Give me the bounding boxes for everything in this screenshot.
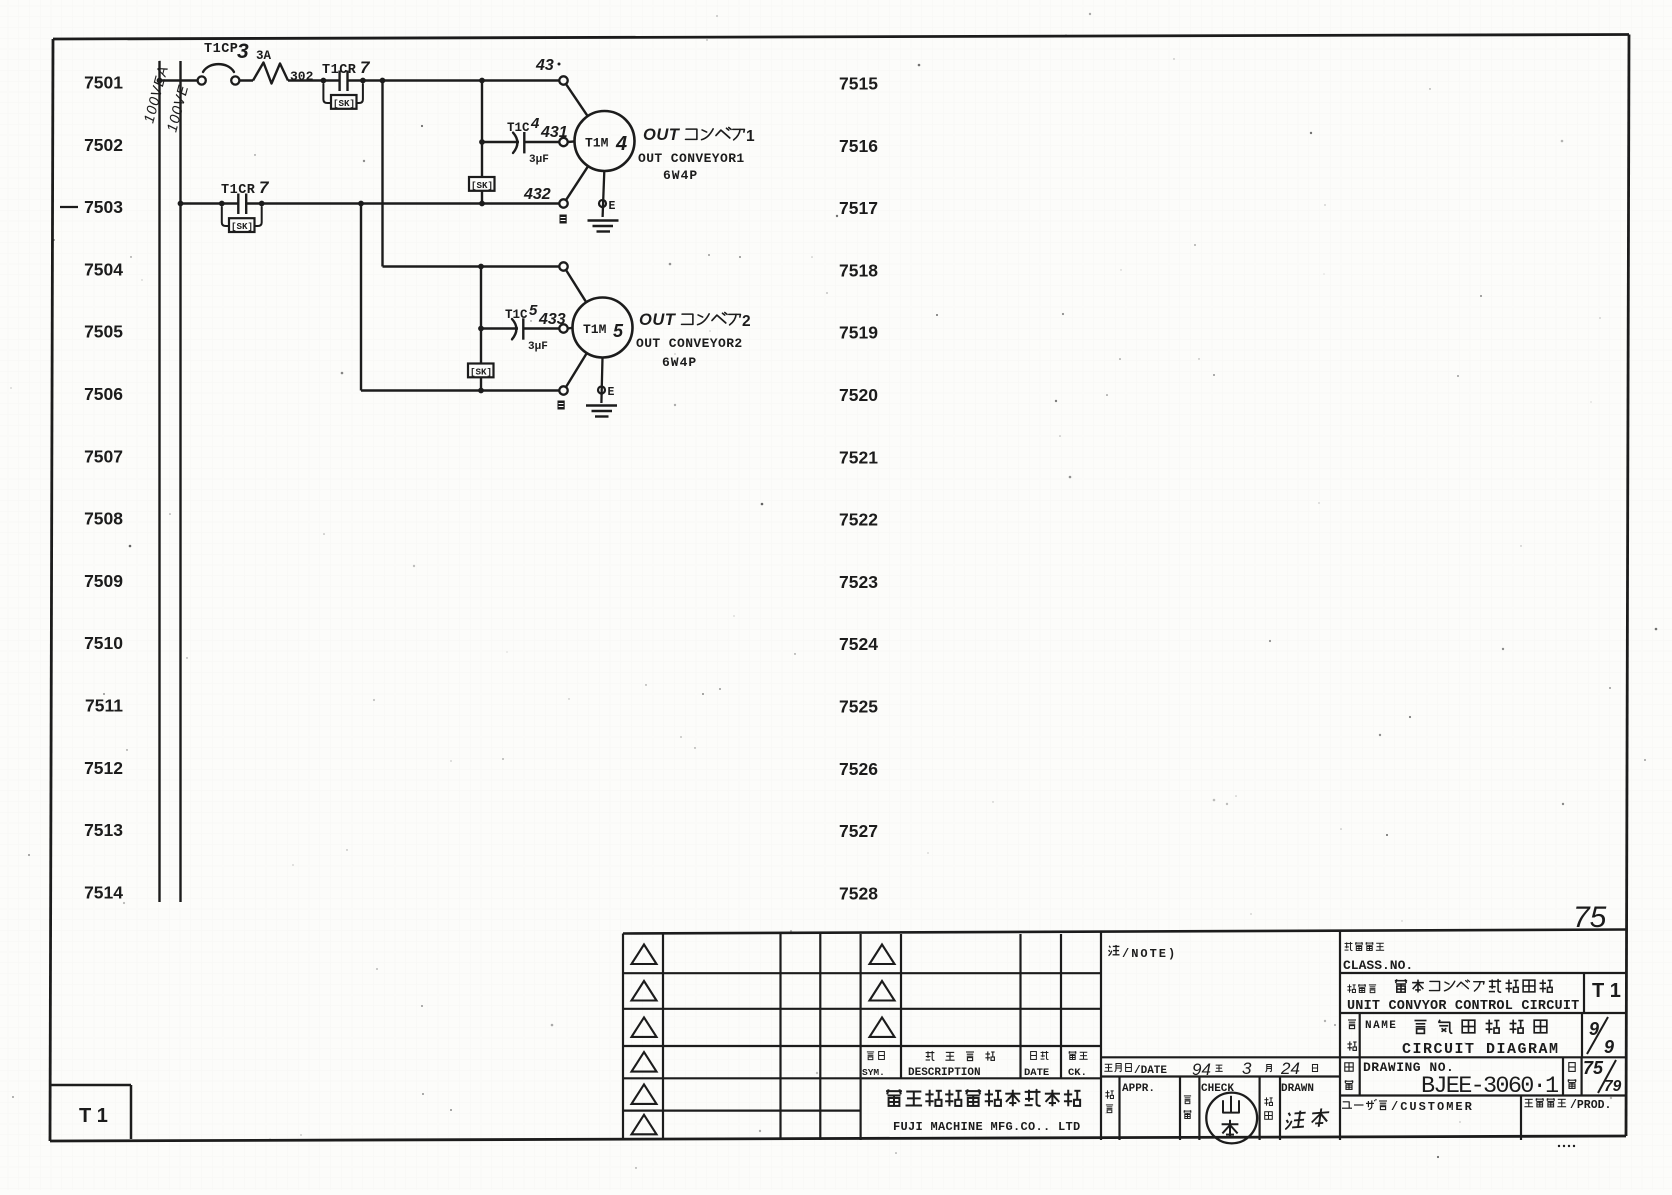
- junction node (vertical feed motor2 top): [380, 78, 386, 84]
- revision triangles column 1: [632, 945, 657, 1135]
- svg-text:FUJI MACHINE MFG.CO.. LTD: FUJI MACHINE MFG.CO.. LTD: [893, 1120, 1081, 1134]
- terminal motor2 bottom: [559, 386, 567, 394]
- sheet code box T1: [51, 1085, 132, 1139]
- contact T1CR7 (line 7503): [219, 178, 270, 214]
- date row: [1101, 1057, 1340, 1079]
- svg-text:75: 75: [1583, 1058, 1604, 1078]
- revision triangles column 2: [870, 945, 895, 1037]
- stray dots under title block: [1558, 1145, 1575, 1147]
- svg-text:7505: 7505: [84, 322, 123, 342]
- svg-text:5: 5: [529, 302, 538, 319]
- svg-text:T1CR: T1CR: [322, 63, 357, 78]
- wire contact to terminal 43: [348, 79, 560, 82]
- svg-text:7523: 7523: [839, 572, 878, 592]
- earth terminal E motor2: [598, 386, 615, 399]
- note cell: [1109, 945, 1178, 961]
- svg-text:NAME: NAME: [1365, 1020, 1397, 1032]
- wire resistor to contact T1CR7: [288, 79, 339, 82]
- svg-text:7520: 7520: [839, 385, 878, 405]
- svg-text:7515: 7515: [839, 74, 878, 94]
- svg-text:3: 3: [1242, 1059, 1252, 1078]
- svg-text:7509: 7509: [84, 571, 123, 591]
- svg-text:43: 43: [535, 57, 554, 74]
- lead terminal43 to motor1: [566, 84, 588, 116]
- label OUT conveyor 2: [636, 311, 751, 370]
- CHECK cell + stamp Yamamoto: [1184, 1083, 1258, 1143]
- svg-text:7524: 7524: [839, 634, 878, 654]
- svg-text:E: E: [608, 386, 615, 399]
- SK box on branch (motor2): [468, 364, 494, 378]
- svg-text:T1C: T1C: [505, 308, 528, 322]
- svg-text:T1C: T1C: [507, 121, 530, 135]
- svg-text:24: 24: [1280, 1059, 1300, 1078]
- svg-text:[SK]: [SK]: [471, 180, 493, 191]
- svg-text:/DATE: /DATE: [1134, 1065, 1167, 1077]
- wire motor2 top horizontal: [383, 265, 560, 267]
- svg-text:DATE: DATE: [1024, 1067, 1049, 1079]
- svg-text:[SK]: [SK]: [470, 366, 492, 377]
- svg-text:7517: 7517: [839, 198, 878, 218]
- lead motor2 to earth: [601, 358, 602, 404]
- svg-text:4: 4: [615, 133, 627, 155]
- svg-text:7510: 7510: [84, 633, 123, 653]
- class no cell: [1340, 942, 1626, 973]
- svg-text:3A: 3A: [256, 49, 272, 63]
- vertical wire x361 to motor2 bottom: [360, 204, 362, 391]
- lead terminal433 to motor2: [568, 327, 573, 330]
- node 7501 junction on rail: [157, 78, 163, 84]
- terminal 43: [535, 57, 568, 85]
- svg-text:7516: 7516: [839, 136, 878, 156]
- company name Fuji Machine: [886, 1089, 1080, 1134]
- svg-text:7502: 7502: [84, 135, 123, 155]
- junction node x361 on 7503: [358, 201, 364, 207]
- DRAWN cell + signature Esaka: [1264, 1083, 1329, 1129]
- drawing no cell: [1340, 1057, 1626, 1100]
- junction node (SK branch): [479, 78, 485, 84]
- svg-text:/CUSTOMER: /CUSTOMER: [1391, 1100, 1474, 1114]
- svg-text:2: 2: [742, 313, 751, 330]
- svg-text:UNIT CONVYOR CONTROL CIRCUIT: UNIT CONVYOR CONTROL CIRCUIT: [1347, 999, 1579, 1014]
- revision header SYM: [862, 1052, 885, 1078]
- tick mark at 7503: [60, 206, 78, 208]
- revision header CK: [1068, 1051, 1088, 1079]
- lead terminal432 to motor1: [566, 166, 588, 200]
- earth terminal E motor1: [599, 200, 616, 213]
- svg-text:BJEE-3060·1: BJEE-3060·1: [1421, 1073, 1558, 1100]
- svg-text:OUT CONVEYOR2: OUT CONVEYOR2: [636, 336, 743, 351]
- svg-text:7506: 7506: [84, 384, 123, 404]
- svg-text:7503: 7503: [84, 197, 123, 217]
- revision header DATE: [1024, 1051, 1049, 1079]
- svg-text:/PROD.: /PROD.: [1570, 1099, 1611, 1112]
- svg-text:SYM.: SYM.: [862, 1067, 885, 1078]
- svg-text:7514: 7514: [84, 882, 123, 902]
- colour mark (blue) motor2: [558, 401, 565, 410]
- left line numbers 7501-7514: [84, 73, 123, 903]
- motor U1 T1M4: [575, 111, 635, 171]
- lead terminal431 to motor1: [568, 140, 575, 143]
- svg-text:79: 79: [1604, 1078, 1622, 1095]
- title block frame: [623, 930, 1626, 1141]
- lead motor1 to earth: [603, 171, 605, 217]
- svg-text:6W4P: 6W4P: [662, 355, 697, 370]
- svg-text:7501: 7501: [84, 73, 123, 93]
- svg-text:T1M: T1M: [583, 322, 607, 337]
- fuse T1CP3 3A: [198, 40, 272, 85]
- wire fuse to resistor: [239, 79, 253, 82]
- svg-text:7: 7: [259, 178, 270, 197]
- svg-text:E: E: [609, 200, 616, 213]
- svg-text:CIRCUIT DIAGRAM: CIRCUIT DIAGRAM: [1402, 1041, 1560, 1058]
- ground motor2: [586, 406, 617, 417]
- svg-text:[SK]: [SK]: [231, 221, 253, 232]
- svg-text:T1CP: T1CP: [204, 42, 238, 57]
- terminal motor2 top: [559, 262, 567, 270]
- APPR cell: [1105, 1083, 1155, 1113]
- svg-text:7519: 7519: [839, 323, 878, 343]
- terminal 432: [523, 186, 568, 208]
- name cell: [1340, 1013, 1626, 1058]
- SK interlock box (line 7503): [222, 207, 262, 232]
- svg-text:7521: 7521: [839, 447, 878, 467]
- resistor 302: [253, 63, 314, 85]
- svg-text:OUT: OUT: [643, 126, 681, 144]
- svg-text:OUT: OUT: [639, 311, 677, 329]
- vertical SK branch motor2: [480, 267, 482, 391]
- wire 7501 rail to fuse: [160, 79, 198, 82]
- svg-text:DESCRIPTION: DESCRIPTION: [908, 1067, 981, 1079]
- svg-text:7508: 7508: [84, 509, 123, 529]
- svg-text:T1CR: T1CR: [221, 183, 256, 198]
- svg-text:3: 3: [237, 40, 249, 63]
- svg-text:[SK]: [SK]: [333, 98, 355, 109]
- svg-text:CLASS.NO.: CLASS.NO.: [1343, 958, 1413, 973]
- customer cell: [1342, 1096, 1611, 1141]
- power rail 100VE: [164, 61, 192, 902]
- svg-text:3μF: 3μF: [529, 154, 549, 166]
- junction node x482 on 7503: [479, 201, 485, 207]
- label OUT conveyor 1: [638, 126, 755, 183]
- SK box on branch (motor1): [469, 177, 495, 191]
- svg-text:T 1: T 1: [1592, 980, 1621, 1002]
- junction node motor2 top: [478, 264, 484, 270]
- svg-text:APPR.: APPR.: [1122, 1083, 1155, 1095]
- middle line numbers 7515-7528: [839, 74, 878, 904]
- svg-text:7: 7: [360, 58, 371, 77]
- wire 7503 rail to contact: [181, 202, 239, 205]
- svg-text:DRAWN: DRAWN: [1281, 1083, 1314, 1095]
- svg-text:7504: 7504: [84, 259, 123, 279]
- capacitor C5 T1C5 3uF: [478, 302, 566, 353]
- svg-text:7518: 7518: [839, 260, 878, 280]
- vertical wire x382.5 to motor2 top: [381, 81, 383, 267]
- capacitor C4 T1C4 3uF: [479, 115, 568, 166]
- contact T1CR7 (line 7501): [321, 58, 372, 91]
- SK interlock box (line 7501): [323, 84, 363, 109]
- svg-text:9: 9: [1604, 1037, 1614, 1057]
- svg-text:1: 1: [746, 128, 755, 145]
- svg-text:OUT CONVEYOR1: OUT CONVEYOR1: [638, 151, 745, 166]
- svg-text:T 1: T 1: [79, 1105, 108, 1127]
- wire motor2 bottom horizontal: [361, 389, 559, 391]
- svg-text:7507: 7507: [84, 446, 123, 466]
- svg-text:7522: 7522: [839, 510, 878, 530]
- approval row dividers: [1120, 1077, 1281, 1141]
- svg-text:7526: 7526: [839, 759, 878, 779]
- lead motor2 bottom: [566, 353, 587, 387]
- svg-text:7528: 7528: [839, 883, 878, 903]
- revision header DESCRIPTION: [908, 1051, 995, 1079]
- svg-text:94: 94: [1192, 1060, 1211, 1079]
- terminal 433: [559, 324, 567, 332]
- svg-text:432: 432: [523, 186, 551, 203]
- svg-text:7511: 7511: [85, 696, 123, 716]
- ground motor1: [588, 221, 619, 232]
- svg-text:7525: 7525: [839, 697, 878, 717]
- power rail 100VEA: [141, 61, 172, 902]
- svg-text:4: 4: [530, 115, 540, 132]
- terminal 431: [559, 138, 567, 146]
- svg-text:7527: 7527: [839, 821, 878, 841]
- wire 7503 contact to terminal 432: [246, 202, 559, 205]
- svg-text:5: 5: [613, 321, 624, 341]
- svg-text:7512: 7512: [84, 758, 123, 778]
- svg-text:CK.: CK.: [1068, 1067, 1087, 1079]
- colour mark (blue) motor1: [560, 215, 567, 224]
- node 7503 junction on rail: [178, 201, 184, 207]
- vertical wire x482 7501->7503: [481, 81, 483, 204]
- svg-text:7513: 7513: [84, 820, 123, 840]
- unit cell: [1340, 973, 1626, 1014]
- junction node motor2 bottom: [478, 388, 484, 394]
- lead motor2 top: [566, 270, 586, 302]
- svg-text:T1M: T1M: [585, 136, 609, 151]
- svg-text:/NOTE): /NOTE): [1122, 947, 1177, 961]
- svg-text:6W4P: 6W4P: [663, 168, 698, 183]
- motor U2 T1M5: [573, 298, 633, 358]
- svg-text:3μF: 3μF: [528, 341, 548, 353]
